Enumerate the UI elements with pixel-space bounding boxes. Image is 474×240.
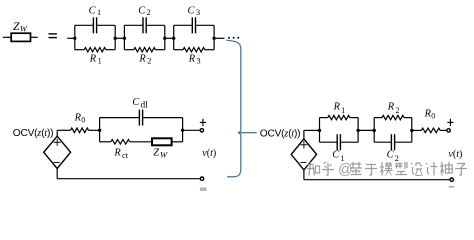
- svg-text:ZW: ZW: [153, 148, 168, 160]
- svg-text:C2: C2: [138, 6, 151, 17]
- svg-text:Rct: Rct: [113, 148, 128, 160]
- svg-text:OCV(z(t)): OCV(z(t)): [13, 128, 53, 139]
- svg-text:v(t): v(t): [448, 149, 462, 160]
- svg-text:C1: C1: [89, 6, 102, 17]
- svg-text:C3: C3: [188, 6, 201, 17]
- svg-text:v(t): v(t): [202, 148, 216, 159]
- svg-text:OCV(z(t)): OCV(z(t)): [260, 128, 300, 139]
